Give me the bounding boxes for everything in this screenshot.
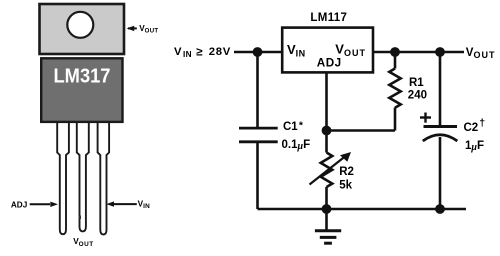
svg-text:28V: 28V	[209, 46, 231, 58]
svg-text:C1*: C1*	[283, 120, 304, 134]
svg-text:5k: 5k	[339, 180, 352, 192]
svg-text:VOUT: VOUT	[466, 47, 496, 60]
svg-text:1μF: 1μF	[465, 140, 484, 153]
svg-text:R2: R2	[339, 166, 354, 178]
svg-text:ADJ: ADJ	[317, 57, 342, 70]
svg-text:240: 240	[408, 90, 427, 102]
svg-text:V: V	[174, 46, 182, 58]
svg-text:0.1μF: 0.1μF	[282, 139, 311, 152]
svg-text:R1: R1	[409, 77, 424, 89]
svg-text:IN: IN	[183, 50, 192, 59]
svg-text:LM117: LM117	[310, 12, 347, 24]
svg-text:ADJ: ADJ	[11, 200, 27, 209]
svg-text:≥: ≥	[196, 46, 203, 59]
svg-text:LM317: LM317	[54, 65, 111, 87]
